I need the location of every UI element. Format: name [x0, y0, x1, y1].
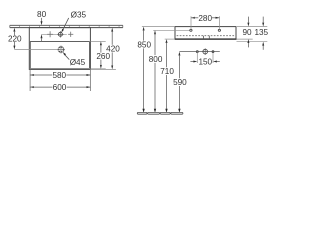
svg-text:280: 280: [198, 14, 212, 23]
dimension 280: [191, 14, 219, 29]
dimension 220: [8, 28, 22, 50]
svg-text:80: 80: [37, 10, 47, 19]
dimension 710: [160, 39, 174, 113]
tap hole centre line: [41, 33, 66, 35]
extension line lower right: [237, 41, 268, 43]
svg-text:580: 580: [52, 71, 66, 80]
optional tap hole cross right: [68, 32, 73, 37]
extension line top right: [237, 26, 267, 28]
extension line slab bottom right: [237, 38, 253, 40]
bowl inner outline (580 wide): [30, 41, 89, 68]
drain trap line: [179, 51, 219, 53]
label D35 leader: [61, 10, 86, 32]
washbasin outer outline 600x420 (plan): [29, 28, 90, 70]
svg-text:150: 150: [198, 57, 212, 66]
svg-text:710: 710: [160, 67, 174, 76]
dimension 150: [190, 53, 219, 67]
dimension 600: [30, 83, 91, 92]
dimension 420: [90, 28, 120, 70]
dimension 590: [173, 52, 187, 113]
dimension 135: [254, 17, 268, 50]
dimension 90: [242, 17, 252, 48]
fixing hole right: [218, 29, 220, 31]
svg-text:600: 600: [53, 83, 67, 92]
dimension 580: [30, 71, 91, 80]
svg-text:590: 590: [173, 78, 187, 87]
wall section strip (plan view rear wall): [10, 25, 123, 27]
drain hole D45: [57, 46, 65, 54]
tap hole circle D35: [57, 31, 63, 37]
label D45 leader: [63, 52, 86, 67]
optional tap hole cross left: [47, 31, 53, 37]
basin front elevation outline: [175, 27, 237, 40]
svg-text:220: 220: [8, 34, 22, 43]
trap screw right: [212, 51, 214, 53]
svg-text:420: 420: [106, 45, 120, 54]
fixing holes centre line: [153, 29, 189, 31]
svg-text:135: 135: [254, 28, 268, 37]
hidden edge dashed: [177, 35, 236, 37]
fixing hole left: [190, 29, 192, 31]
dimension 850: [137, 27, 151, 113]
dimension 260: [90, 41, 110, 68]
extension line 850 top: [142, 26, 175, 28]
svg-text:Ø35: Ø35: [71, 10, 87, 19]
dimension 80: [37, 10, 47, 41]
drain outlet notch: [204, 36, 210, 39]
extension line 710 bottom: [165, 38, 175, 40]
svg-text:Ø45: Ø45: [70, 58, 86, 67]
drain trap symbol: [202, 48, 209, 55]
extension lines below basin: [30, 69, 90, 91]
dimension 800: [149, 30, 163, 113]
floor line: [137, 112, 183, 114]
trap screw left: [196, 51, 198, 53]
svg-text:800: 800: [149, 55, 163, 64]
svg-text:850: 850: [137, 41, 151, 50]
drain centre line: [14, 49, 58, 51]
svg-text:90: 90: [242, 28, 252, 37]
